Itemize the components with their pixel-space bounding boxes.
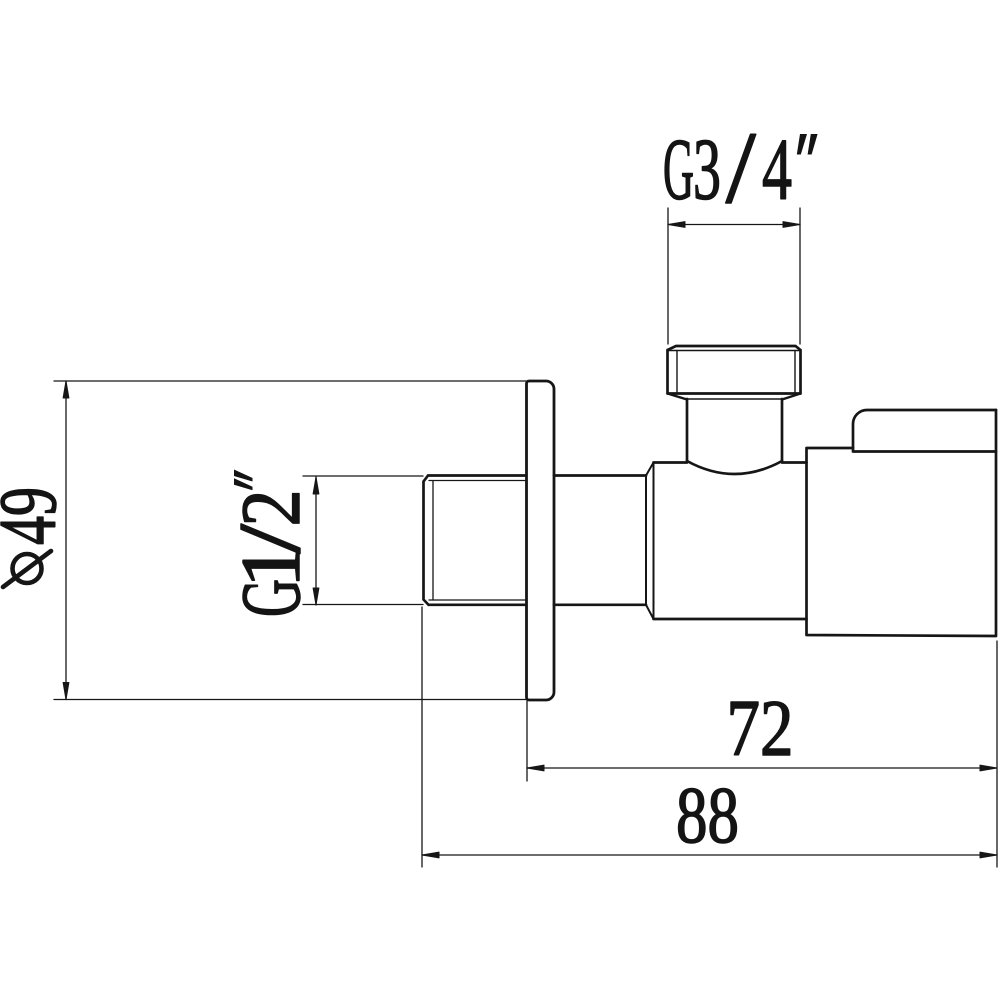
- label dia 49: diameter symbol circle: [13, 554, 42, 583]
- svg-text:G: G: [663, 122, 694, 219]
- pipe chamfer vertical: [432, 481, 434, 600]
- step vertical small: [645, 476, 647, 605]
- dimension dia49 extension line top: [54, 380, 526, 382]
- svg-text:2: 2: [224, 490, 318, 527]
- nut inner top line: [668, 350, 800, 352]
- dimension G3/4 extension line right: [799, 208, 801, 344]
- nut flare diagonal right: [782, 394, 801, 400]
- handle cap tab: [853, 410, 996, 452]
- svg-text:49: 49: [0, 487, 73, 545]
- arrow 72 left: [527, 765, 544, 771]
- arrow G1/2 top: [313, 477, 319, 494]
- svg-text:72: 72: [727, 685, 794, 773]
- nut facet line left: [676, 351, 678, 394]
- svg-text:88: 88: [676, 772, 739, 860]
- pipe thread root line bottom: [429, 599, 526, 601]
- dimension G3/4 line: [668, 224, 800, 226]
- nut facet line right: [794, 351, 796, 394]
- pipe thread root line top: [429, 480, 526, 482]
- label G1/2 double prime mark 2: [234, 478, 253, 490]
- svg-text:4: 4: [762, 122, 792, 219]
- main body top edge right: [782, 461, 807, 464]
- dimension G3/4 extension line left: [667, 208, 669, 344]
- main body top arc under neck: [687, 461, 782, 474]
- wall flange: [527, 381, 555, 700]
- neck top line: [687, 398, 782, 400]
- dimension dia49 line: [65, 381, 67, 700]
- arrow dia49 top: [63, 381, 69, 398]
- neck left vertical: [686, 399, 689, 461]
- neck right vertical: [781, 399, 784, 461]
- dimension 72 extension line left: [526, 701, 528, 781]
- label G3/4 double prime mark 2: [808, 134, 818, 155]
- main body top edge left: [654, 461, 688, 464]
- step chamfer top: [646, 463, 654, 476]
- dimension 88 extension line right: [996, 641, 998, 867]
- dimension 88 line: [422, 854, 997, 856]
- arrow G1/2 bottom: [313, 588, 319, 605]
- nut flare diagonal left: [668, 394, 688, 400]
- dimension 88 extension line left: [421, 607, 423, 867]
- arrow dia49 bottom: [63, 683, 69, 700]
- dimension G1/2 extension line top: [303, 475, 423, 477]
- svg-text:/: /: [726, 111, 756, 225]
- main body bottom edge: [654, 618, 807, 621]
- valve mid body top edge: [554, 474, 646, 477]
- svg-text:3: 3: [693, 122, 721, 219]
- dimension dia49 extension line bottom: [54, 699, 526, 701]
- svg-text:/: /: [222, 523, 319, 553]
- dimension G1/2 extension line bottom: [303, 604, 423, 606]
- label G1/2 double prime mark 1: [234, 470, 253, 482]
- hex nut G3/4 outline: [668, 346, 801, 394]
- arrow 72 right: [980, 765, 997, 771]
- dimension 72 line: [527, 767, 997, 769]
- main body left vertical: [653, 463, 655, 620]
- label dia 49: diameter symbol slash: [3, 551, 51, 587]
- valve mid body bottom edge: [554, 603, 646, 606]
- label G3/4 double prime mark 1: [797, 134, 807, 155]
- arrow 88 right: [980, 852, 997, 858]
- arrow G3/4 left: [668, 222, 685, 228]
- arrow G3/4 right: [783, 222, 800, 228]
- handle main block: [807, 410, 997, 636]
- arrow 88 left: [422, 852, 439, 858]
- threaded pipe G1/2 outline: [424, 476, 527, 605]
- step chamfer bottom: [646, 605, 654, 619]
- dimension G1/2 line: [315, 477, 317, 605]
